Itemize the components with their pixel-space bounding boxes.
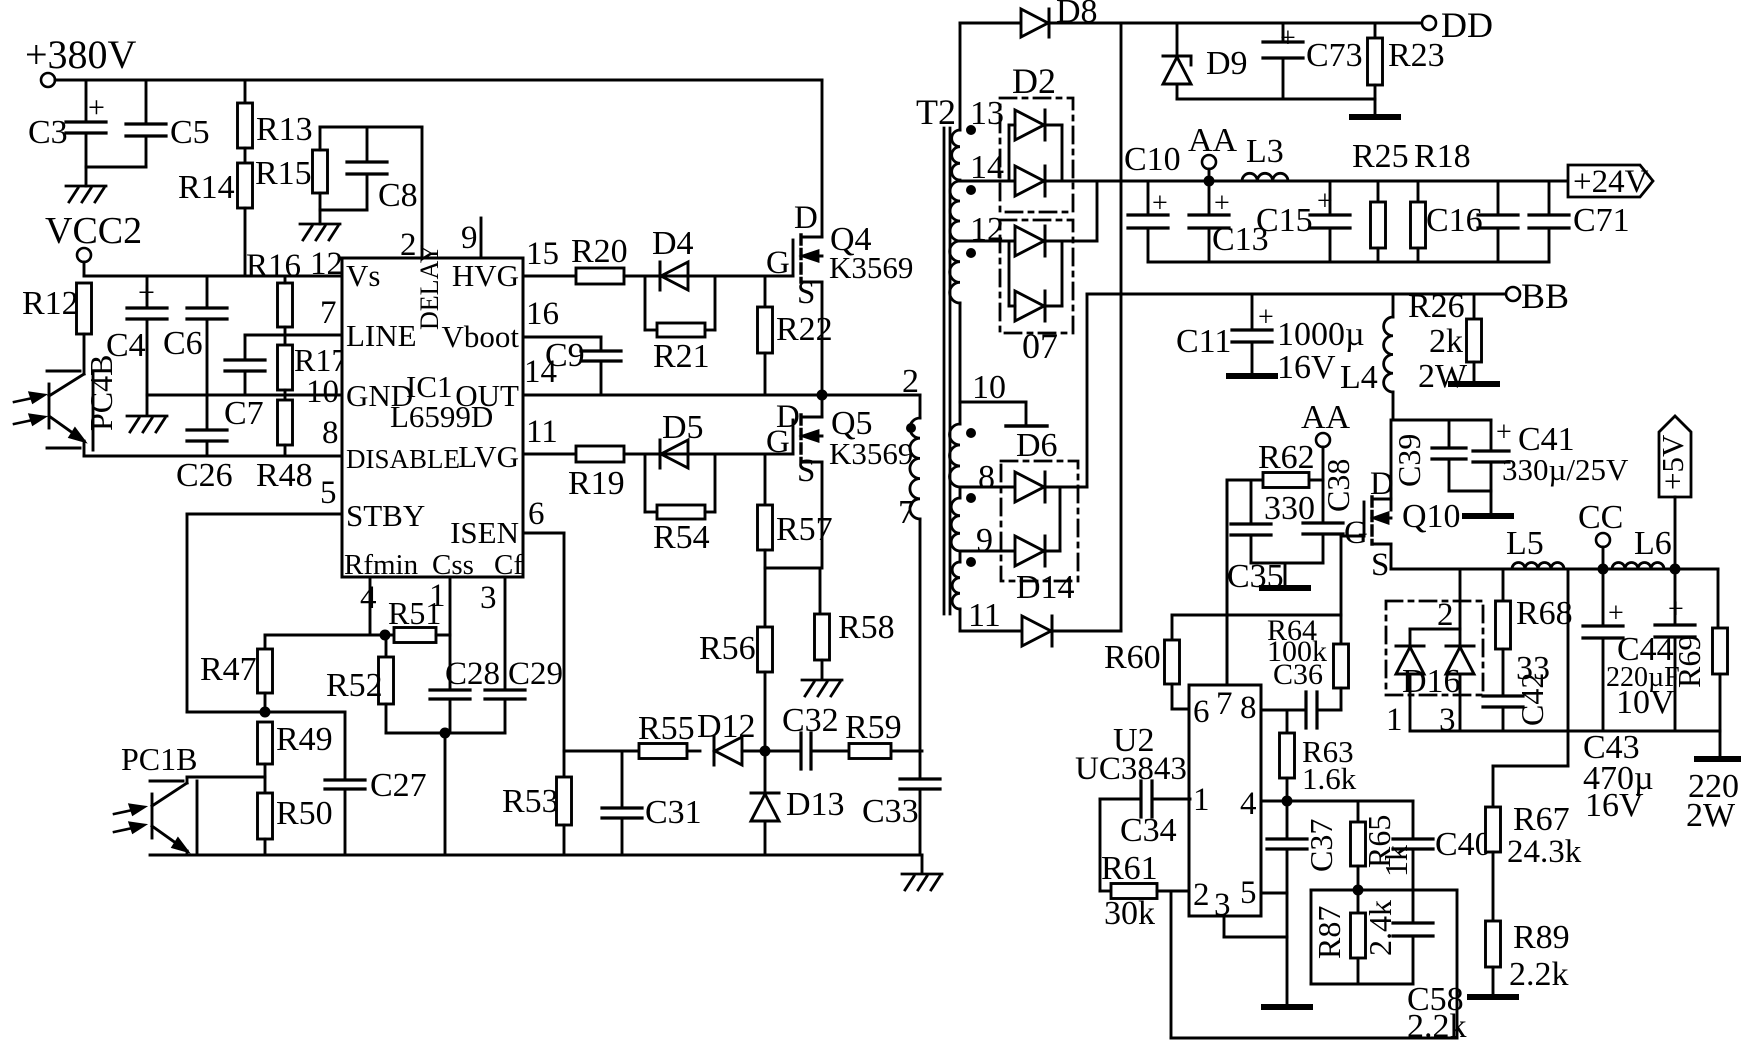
svg-text:LVG: LVG [458,439,519,474]
svg-text:G: G [766,245,790,281]
svg-text:ISEN: ISEN [450,515,519,550]
svg-text:6: 6 [1193,694,1210,730]
svg-text:C11: C11 [1176,323,1231,360]
svg-text:R20: R20 [571,233,628,270]
svg-text:D12: D12 [697,708,756,745]
svg-text:11: 11 [526,414,558,450]
svg-text:Cf: Cf [494,549,523,581]
svg-text:C15: C15 [1256,202,1313,239]
svg-text:R52: R52 [326,667,383,704]
svg-text:BB: BB [1521,276,1569,316]
svg-text:S: S [797,453,815,489]
svg-text:C34: C34 [1120,812,1177,849]
svg-text:330µ/25V: 330µ/25V [1502,452,1629,487]
svg-text:R69: R69 [1671,635,1707,688]
svg-text:G: G [1344,515,1368,551]
svg-text:PC4B: PC4B [83,355,119,431]
svg-text:2W: 2W [1418,358,1468,395]
svg-text:7: 7 [1216,686,1233,722]
svg-text:C7: C7 [224,395,264,432]
svg-text:3: 3 [480,580,497,616]
svg-text:R19: R19 [568,465,625,502]
svg-text:4: 4 [360,580,377,616]
svg-text:R58: R58 [838,609,895,646]
svg-text:C9: C9 [545,337,585,374]
svg-text:C37: C37 [1303,819,1339,872]
svg-text:+380V: +380V [25,32,137,77]
svg-text:C31: C31 [645,794,702,831]
svg-text:2.4k: 2.4k [1362,900,1398,956]
svg-text:4: 4 [1240,786,1257,822]
svg-text:Vboot: Vboot [442,319,520,354]
svg-text:R87: R87 [1311,906,1347,959]
svg-text:D16: D16 [1402,663,1461,700]
svg-text:DD: DD [1441,5,1493,45]
svg-text:K3569: K3569 [829,436,913,471]
svg-text:L4: L4 [1340,359,1378,396]
svg-text:STBY: STBY [346,498,425,533]
svg-text:C42: C42 [1514,673,1550,726]
svg-text:7: 7 [898,494,915,531]
svg-text:+5V: +5V [1655,434,1690,490]
svg-text:2W: 2W [1686,797,1736,834]
svg-text:5: 5 [1240,875,1257,911]
svg-text:+: + [1214,188,1230,219]
svg-text:R22: R22 [776,311,833,348]
svg-text:7: 7 [320,295,337,331]
svg-text:+: + [1496,417,1512,448]
svg-text:C32: C32 [782,702,839,739]
svg-text:R54: R54 [653,519,710,556]
svg-text:10V: 10V [1616,684,1675,721]
svg-text:R56: R56 [699,630,756,667]
svg-text:16V: 16V [1585,787,1644,824]
svg-text:11: 11 [968,597,1001,634]
svg-text:K3569: K3569 [829,250,913,285]
svg-text:C16: C16 [1426,202,1483,239]
svg-text:30k: 30k [1104,895,1155,932]
svg-text:D8: D8 [1056,0,1098,30]
svg-text:L3: L3 [1246,133,1284,170]
svg-text:8: 8 [978,459,995,496]
svg-text:R48: R48 [256,457,313,494]
svg-text:R51: R51 [388,595,441,631]
svg-text:10: 10 [306,374,339,410]
svg-text:T2: T2 [916,92,956,132]
svg-text:1: 1 [1386,702,1403,738]
svg-text:D9: D9 [1206,45,1248,82]
svg-text:C71: C71 [1573,202,1630,239]
svg-text:R89: R89 [1513,919,1570,956]
svg-text:15: 15 [526,236,559,272]
svg-text:R23: R23 [1388,37,1445,74]
svg-text:C39: C39 [1391,434,1427,487]
svg-text:+: + [1608,598,1624,629]
svg-text:D2: D2 [1012,61,1056,101]
svg-text:R14: R14 [178,169,235,206]
svg-text:LINE: LINE [346,318,417,353]
svg-text:2.2k: 2.2k [1407,1008,1467,1042]
svg-text:CC: CC [1578,499,1623,536]
svg-text:VCC2: VCC2 [45,210,142,252]
svg-text:D6: D6 [1016,427,1058,464]
svg-text:R26: R26 [1408,288,1465,325]
svg-text:D4: D4 [652,225,694,262]
svg-text:R57: R57 [776,511,833,548]
svg-text:PC1B: PC1B [121,741,197,777]
svg-text:C27: C27 [370,767,427,804]
svg-text:C26: C26 [176,457,233,494]
svg-text:9: 9 [461,220,478,256]
svg-text:5: 5 [320,475,337,511]
svg-text:+: + [1258,302,1274,333]
svg-text:9: 9 [976,522,993,559]
svg-text:OUT: OUT [455,378,519,413]
svg-text:8: 8 [322,415,339,451]
svg-text:UC3843: UC3843 [1075,751,1187,787]
svg-text:R16: R16 [246,248,301,284]
svg-text:2: 2 [1437,597,1454,633]
svg-text:2.2k: 2.2k [1509,956,1569,993]
svg-text:R61: R61 [1101,850,1158,887]
svg-text:R60: R60 [1104,639,1161,676]
svg-text:R68: R68 [1516,595,1573,632]
svg-text:R53: R53 [502,783,559,820]
svg-text:Rfmin: Rfmin [344,549,419,581]
svg-text:C38: C38 [1320,459,1356,512]
svg-text:R12: R12 [22,285,79,322]
svg-text:+: + [1152,188,1168,219]
svg-text:C5: C5 [170,114,210,151]
svg-text:R50: R50 [276,795,333,832]
svg-text:C6: C6 [163,325,203,362]
svg-text:R13: R13 [256,111,313,148]
svg-text:L6: L6 [1634,525,1672,562]
svg-text:R55: R55 [638,710,695,747]
svg-text:+: + [1280,23,1296,54]
svg-text:C10: C10 [1124,141,1181,178]
svg-text:C29: C29 [508,656,563,692]
svg-text:AA: AA [1301,399,1351,436]
svg-text:16V: 16V [1277,349,1336,386]
svg-text:3: 3 [1214,887,1231,923]
svg-text:C35: C35 [1227,558,1284,595]
svg-text:C73: C73 [1306,37,1363,74]
svg-text:D: D [794,200,818,236]
svg-text:C36: C36 [1273,658,1323,691]
svg-text:+: + [1668,594,1684,625]
svg-text:R67: R67 [1513,801,1570,838]
svg-text:Q10: Q10 [1402,498,1461,535]
svg-text:C3: C3 [28,114,68,151]
svg-text:R49: R49 [276,721,333,758]
svg-text:R21: R21 [653,338,710,375]
svg-text:D5: D5 [662,409,704,446]
svg-text:3: 3 [1439,702,1456,738]
svg-text:DELAY: DELAY [415,244,444,330]
svg-text:C40: C40 [1435,826,1492,863]
svg-text:+: + [88,91,105,124]
svg-text:L5: L5 [1506,525,1544,562]
svg-text:C8: C8 [378,177,418,214]
svg-text:S: S [797,275,815,311]
svg-text:DISABLE: DISABLE [346,444,460,474]
svg-text:C28: C28 [445,656,500,692]
svg-text:2: 2 [1193,877,1210,913]
svg-text:+24V: +24V [1573,164,1649,200]
svg-text:AA: AA [1188,122,1238,159]
svg-text:R18: R18 [1414,138,1471,175]
svg-text:R59: R59 [845,709,902,746]
svg-text:10: 10 [972,369,1006,406]
svg-text:R62: R62 [1258,439,1315,476]
svg-text:2k: 2k [1429,323,1463,360]
svg-text:Vs: Vs [346,258,380,293]
svg-text:S: S [1371,547,1389,583]
svg-text:24.3k: 24.3k [1507,834,1582,870]
svg-text:1.6k: 1.6k [1302,761,1357,796]
svg-text:1000µ: 1000µ [1277,316,1365,353]
svg-text:HVG: HVG [452,258,519,293]
svg-text:+: + [138,276,155,309]
svg-text:R17: R17 [294,342,347,378]
svg-text:8: 8 [1240,690,1257,726]
svg-text:R15: R15 [255,155,312,192]
svg-text:G: G [766,424,790,460]
svg-text:2: 2 [902,363,919,400]
svg-text:C33: C33 [862,793,919,830]
svg-text:1: 1 [1193,782,1210,818]
svg-text:R25: R25 [1352,138,1409,175]
svg-text:D14: D14 [1016,569,1075,606]
svg-text:D13: D13 [786,786,845,823]
svg-text:16: 16 [526,296,559,332]
svg-text:Css: Css [432,549,474,581]
svg-text:12: 12 [310,246,343,282]
svg-text:07: 07 [1022,326,1058,366]
svg-text:R47: R47 [200,651,257,688]
svg-text:D: D [1370,466,1394,502]
svg-text:2: 2 [400,227,417,263]
svg-text:+: + [1317,186,1333,217]
svg-text:C4: C4 [106,327,146,364]
svg-text:6: 6 [528,496,545,532]
